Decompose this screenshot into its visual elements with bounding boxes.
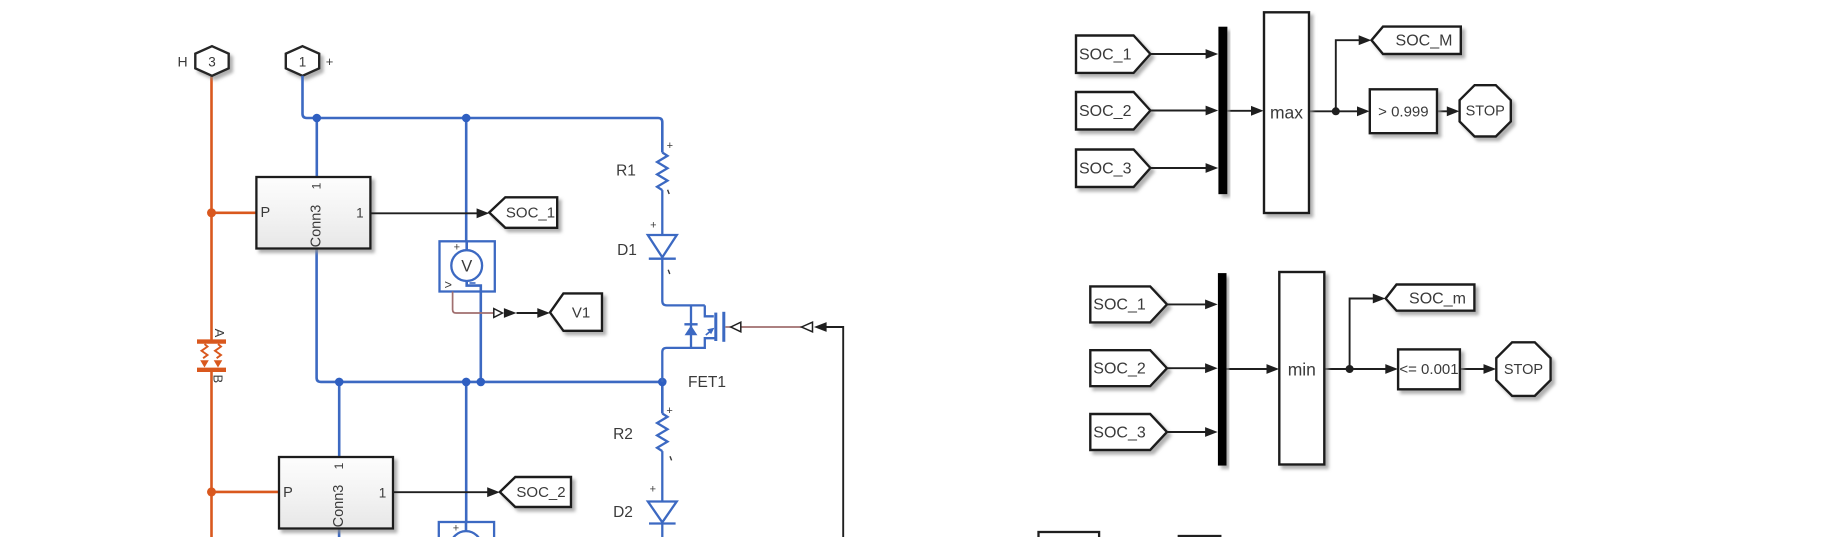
- svg-text:+: +: [666, 405, 672, 417]
- svg-text:B: B: [211, 375, 226, 384]
- svg-text:D1: D1: [617, 242, 637, 259]
- svg-text:STOP: STOP: [1504, 362, 1543, 378]
- svg-text:FET1: FET1: [688, 374, 726, 391]
- svg-text:1: 1: [332, 462, 346, 469]
- svg-text:Conn3: Conn3: [309, 205, 325, 248]
- svg-text:A: A: [212, 329, 227, 338]
- svg-text:Conn3: Conn3: [331, 485, 347, 528]
- svg-text:SOC_2: SOC_2: [516, 484, 565, 501]
- svg-text:+: +: [453, 522, 459, 534]
- svg-text:> 0.999: > 0.999: [1378, 104, 1428, 121]
- svg-text:+: +: [650, 220, 656, 232]
- svg-text:SOC_3: SOC_3: [1093, 424, 1146, 441]
- svg-text:H: H: [177, 54, 187, 70]
- svg-text:V1: V1: [572, 304, 590, 321]
- svg-text:STOP: STOP: [1466, 104, 1505, 120]
- svg-text:>: >: [444, 277, 452, 292]
- svg-text:1: 1: [309, 182, 323, 189]
- svg-text:SOC_1: SOC_1: [506, 205, 555, 222]
- svg-text:SOC_2: SOC_2: [1093, 361, 1146, 378]
- svg-text:1: 1: [379, 485, 387, 500]
- svg-text:D2: D2: [613, 504, 633, 521]
- svg-text:P: P: [261, 205, 271, 221]
- svg-text:SOC_3: SOC_3: [1079, 160, 1132, 177]
- svg-text:1: 1: [356, 205, 364, 220]
- svg-text:+: +: [454, 242, 460, 254]
- svg-text:max: max: [1270, 102, 1303, 122]
- svg-text:+: +: [667, 140, 673, 152]
- svg-text:SOC_1: SOC_1: [1079, 46, 1132, 63]
- svg-text:SOC_M: SOC_M: [1396, 32, 1453, 49]
- svg-text:P: P: [283, 485, 293, 501]
- svg-text:min: min: [1288, 360, 1316, 380]
- svg-text:+: +: [650, 484, 656, 496]
- svg-text:SOC_m: SOC_m: [1409, 291, 1466, 308]
- svg-text:+: +: [326, 54, 334, 69]
- svg-text:SOC_2: SOC_2: [1079, 103, 1132, 120]
- svg-text:3: 3: [208, 55, 216, 70]
- svg-text:R2: R2: [613, 426, 633, 443]
- svg-text:<= 0.001: <= 0.001: [1399, 361, 1458, 378]
- svg-text:R1: R1: [616, 163, 636, 180]
- svg-text:SOC_1: SOC_1: [1093, 297, 1146, 314]
- svg-text:1: 1: [299, 55, 307, 70]
- svg-text:V: V: [461, 257, 472, 275]
